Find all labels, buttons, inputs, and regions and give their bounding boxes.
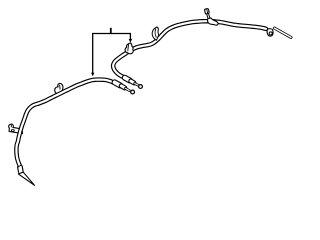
hose B end ring: [139, 85, 143, 89]
clip C5 (flag clip on hose B): [152, 27, 158, 40]
clip C2 (pouch clip on diagonal): [55, 83, 63, 94]
hose section B (upper long run): [113, 21, 266, 77]
arrowhead right: [129, 39, 132, 43]
hose A lower connector beads: [115, 82, 130, 90]
clip C4 (stud clip on top run): [204, 8, 218, 25]
hose section A (lower-left run): [16, 80, 113, 168]
hose A end ring: [131, 90, 135, 94]
right end fitting (downturn elbow): [267, 29, 273, 36]
separate nozzle pill: [274, 28, 291, 37]
arrowhead left: [91, 73, 94, 76]
clip C3 (pouch clip on upper branch, arrow target): [125, 43, 133, 54]
callout bracket: [93, 34, 131, 74]
collar on hose A near bottom: [18, 165, 21, 172]
hose A bottom tip: [18, 172, 34, 185]
hose B connector beads: [125, 78, 138, 86]
label 1: [110, 28, 112, 33]
clip C1 (duck-head clip, lower left, behind hose): [9, 124, 23, 134]
